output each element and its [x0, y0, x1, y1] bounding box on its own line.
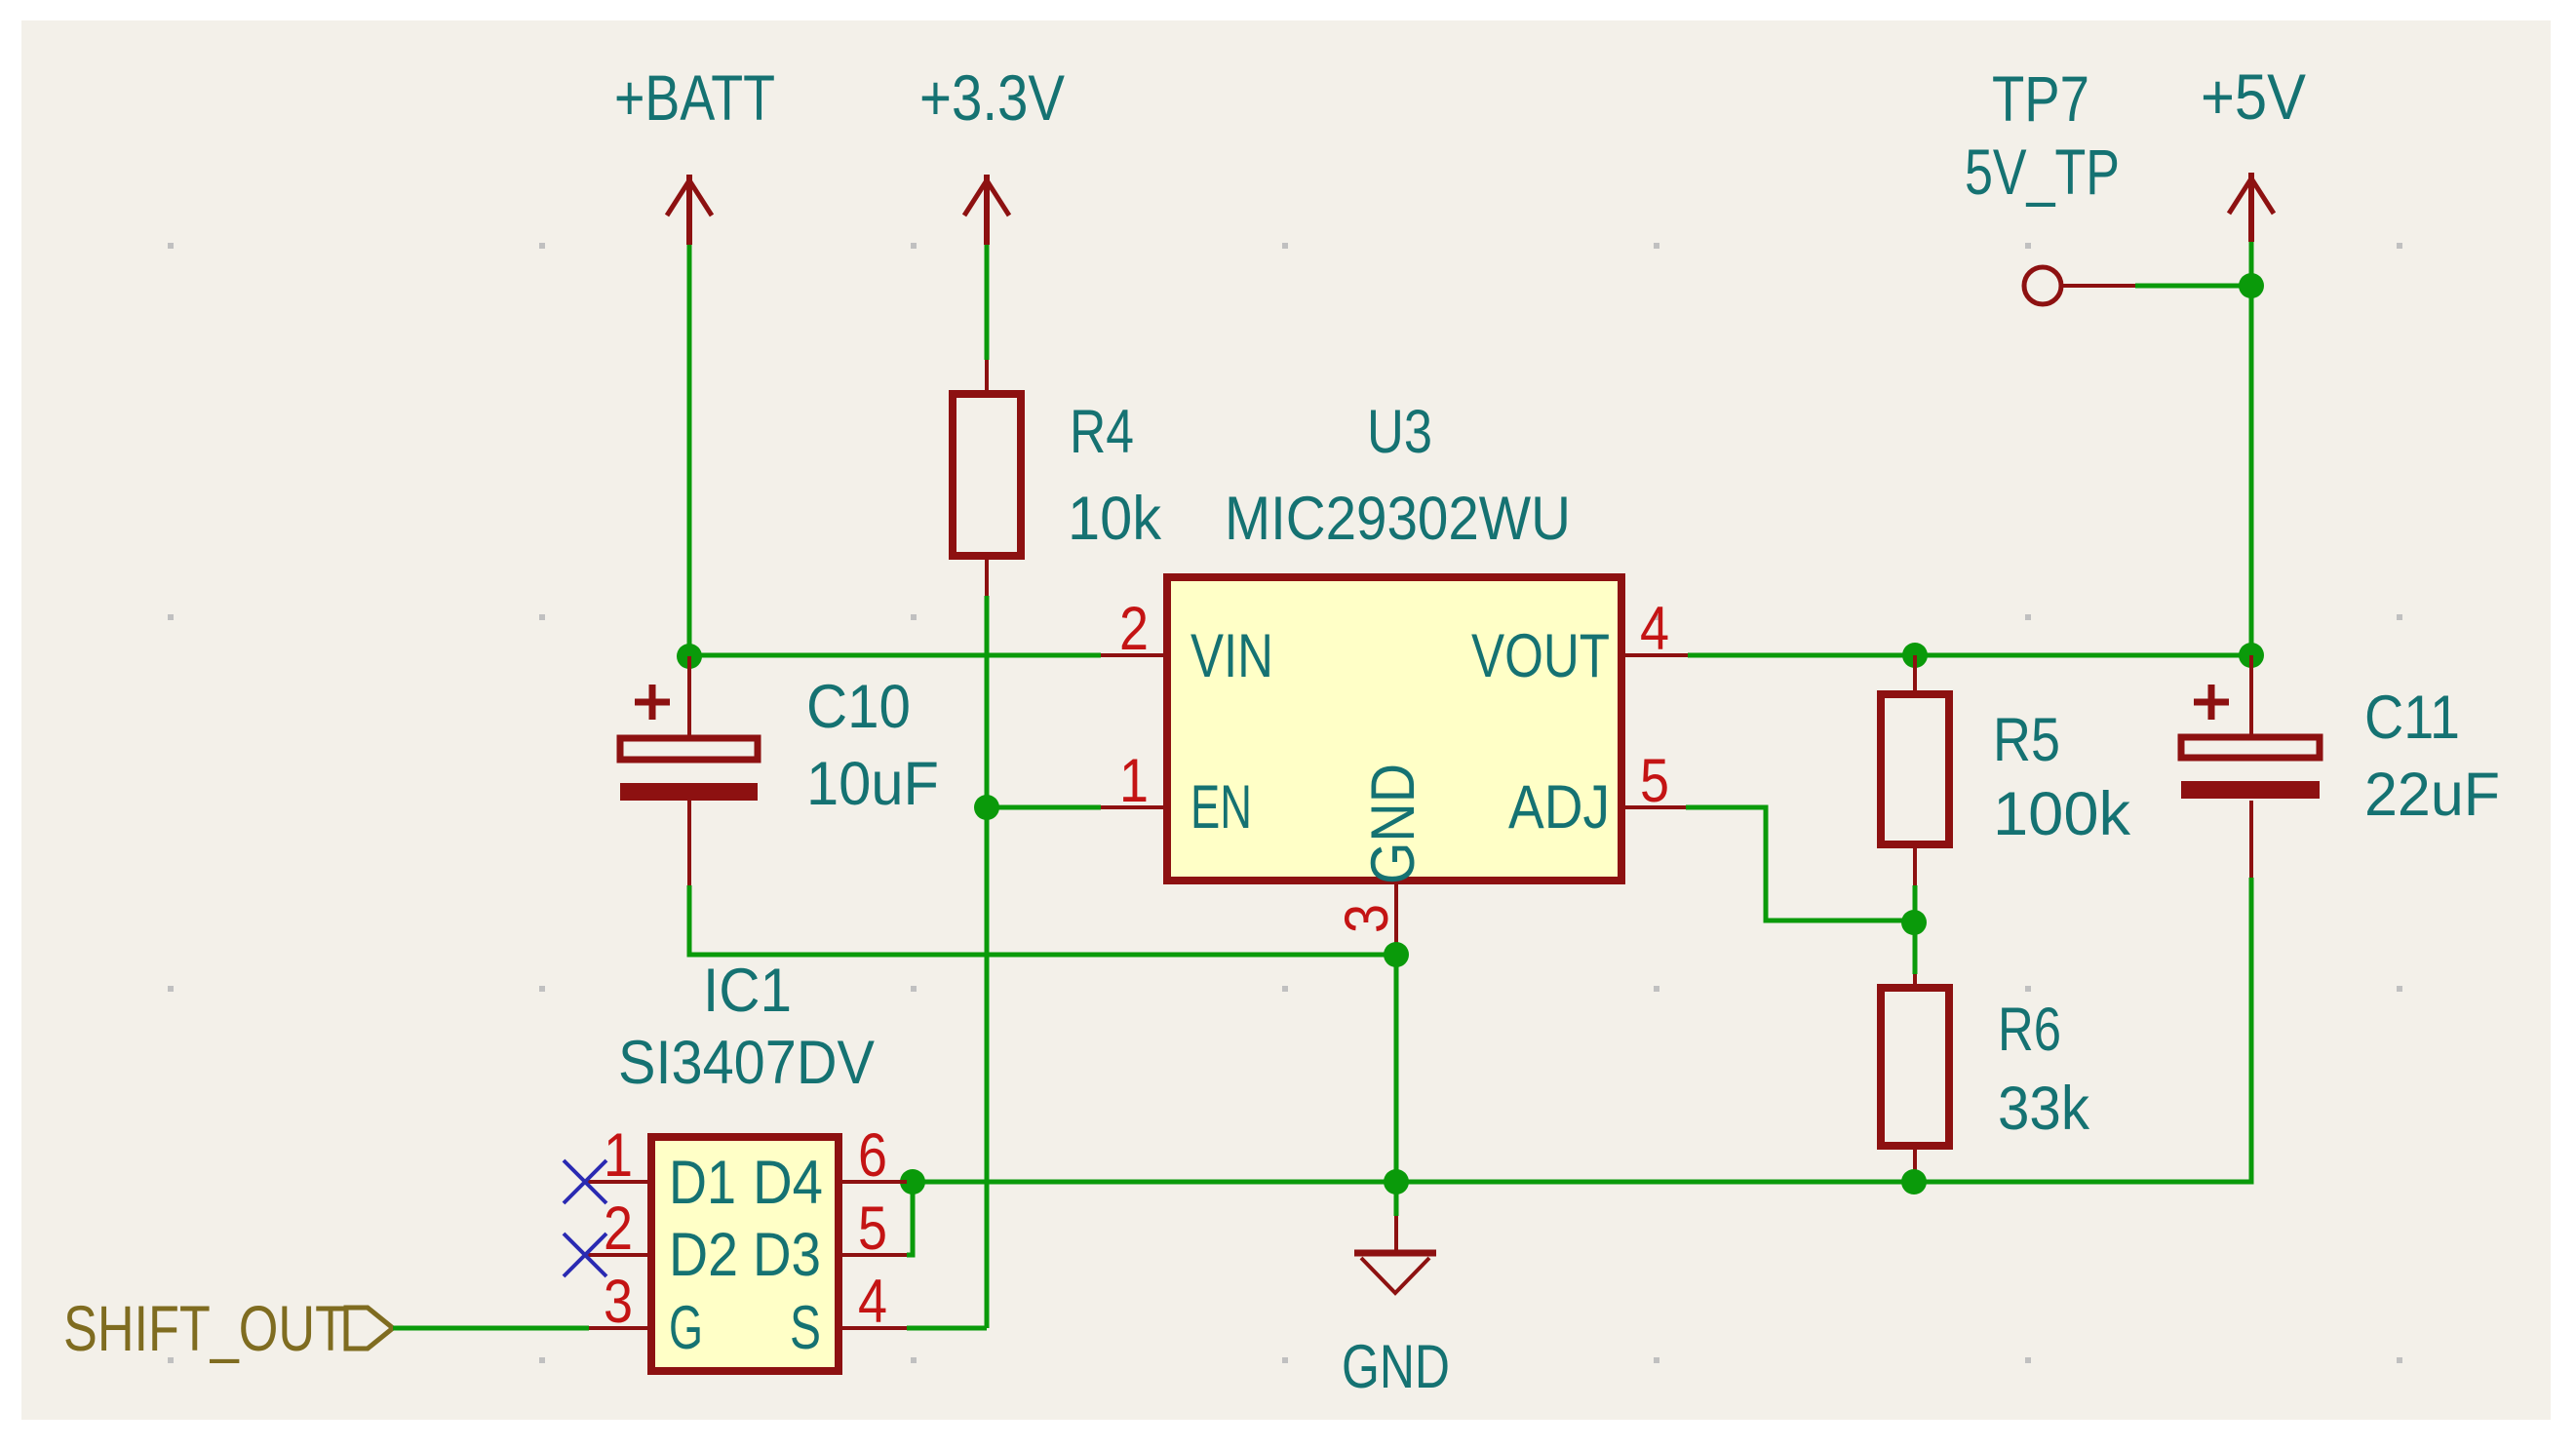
- capacitor C10 bottom plate: [620, 783, 758, 801]
- svg-text:100k: 100k: [1993, 780, 2131, 848]
- svg-text:GND: GND: [1359, 764, 1427, 884]
- U3 pin name EN: [1190, 773, 1252, 842]
- resistor R4 bottom pin: [985, 556, 989, 596]
- wire +5V vertical: [2249, 242, 2254, 655]
- IC1 pin name D1: [669, 1149, 736, 1217]
- svg-text:C11: C11: [2364, 684, 2460, 752]
- svg-text:D3: D3: [753, 1221, 821, 1289]
- svg-text:6: 6: [858, 1121, 887, 1190]
- svg-text:D2: D2: [669, 1221, 738, 1289]
- junction U3 pin3 node: [1384, 942, 1409, 967]
- resistor R6 top pin: [1913, 974, 1917, 988]
- junction +BATT/C10/VIN: [677, 644, 702, 669]
- U3 pin name GND vertical: [1359, 764, 1427, 884]
- IC1 pin name S: [790, 1294, 821, 1362]
- wire C10 bottom: [689, 885, 1396, 955]
- U3 pin 1 EN stub: [1101, 805, 1167, 809]
- hierarchical label SHIFT_OUT text: [63, 1292, 346, 1364]
- wire bottom row: [913, 1180, 1914, 1185]
- IC1 pin name D2: [669, 1221, 738, 1289]
- svg-text:R6: R6: [1998, 996, 2061, 1064]
- svg-text:IC1: IC1: [703, 957, 792, 1025]
- wire SHIFT_OUT to gate: [393, 1326, 589, 1331]
- U3 pin 2 number: [1119, 595, 1149, 663]
- power symbol +BATT label: [614, 61, 775, 134]
- U3 pin 4 number: [1640, 595, 1669, 663]
- capacitor C11 plus sign: [2194, 685, 2229, 720]
- resistor R6 reference label: [1998, 996, 2061, 1064]
- svg-text:5V_TP: 5V_TP: [1965, 136, 2120, 208]
- ground stub: [1394, 1216, 1398, 1250]
- U3 pin name VOUT: [1471, 622, 1610, 690]
- resistor R4 top pin: [985, 360, 989, 394]
- IC1 value SI3407DV: [618, 1029, 875, 1097]
- capacitor C10 top pin: [687, 656, 691, 738]
- wire TP7 to +5V net: [2135, 284, 2251, 289]
- svg-text:SI3407DV: SI3407DV: [618, 1029, 875, 1097]
- resistor R4 body: [953, 394, 1021, 556]
- svg-text:+3.3V: +3.3V: [919, 61, 1065, 134]
- capacitor C10 bottom pin: [687, 801, 691, 885]
- IC1 pin name D3: [753, 1221, 821, 1289]
- U3 value MIC29302WU: [1225, 485, 1571, 553]
- wire +BATT to VIN: [689, 653, 1101, 658]
- resistor R6 value 33k: [1998, 1075, 2089, 1143]
- wire ADJ to divider: [1686, 807, 1914, 920]
- wire junction to R6: [1913, 933, 1918, 974]
- power symbol +BATT arrow: [667, 175, 712, 245]
- capacitor C10 top plate: [620, 738, 758, 760]
- svg-text:4: 4: [858, 1268, 887, 1336]
- svg-text:R5: R5: [1993, 706, 2060, 774]
- svg-text:4: 4: [1640, 595, 1669, 663]
- test point TP7 net label 5V_TP: [1965, 136, 2120, 208]
- test point TP7 reference label: [1992, 62, 2089, 135]
- svg-text:22uF: 22uF: [2364, 761, 2500, 829]
- svg-text:MIC29302WU: MIC29302WU: [1225, 485, 1571, 553]
- svg-text:2: 2: [604, 1194, 633, 1263]
- power symbol +3.3V label: [919, 61, 1065, 134]
- svg-text:+BATT: +BATT: [614, 61, 775, 134]
- resistor R5 value 100k: [1993, 780, 2131, 848]
- resistor R5 reference label: [1993, 706, 2060, 774]
- junction R5/R6/ADJ: [1901, 910, 1927, 935]
- svg-text:33k: 33k: [1998, 1075, 2089, 1143]
- svg-text:2: 2: [1119, 595, 1149, 663]
- junction IC1 pin6: [900, 1169, 925, 1194]
- IC1 pin 6 number: [858, 1121, 887, 1190]
- junction GND column bottom: [1384, 1169, 1409, 1194]
- ground label GND: [1342, 1333, 1450, 1401]
- wire C11 bottom: [1914, 878, 2251, 1182]
- U3 pin 3 GND stub: [1394, 881, 1398, 955]
- capacitor C10 value 10uF: [806, 750, 939, 818]
- capacitor C10 plus sign: [635, 685, 670, 720]
- wire +3.3V to R4: [985, 245, 990, 360]
- svg-text:U3: U3: [1367, 398, 1432, 466]
- svg-text:EN: EN: [1190, 773, 1252, 842]
- svg-text:S: S: [790, 1294, 821, 1362]
- IC1 pin 2 number: [604, 1194, 633, 1263]
- svg-text:+5V: +5V: [2201, 60, 2306, 133]
- U3 pin name ADJ: [1508, 773, 1610, 842]
- capacitor C11 bottom plate: [2181, 781, 2320, 799]
- svg-text:3: 3: [1333, 904, 1401, 933]
- power symbol +5V arrow: [2229, 173, 2274, 242]
- junction EN node: [974, 795, 999, 820]
- junction R6 bottom: [1901, 1169, 1927, 1194]
- power symbol +5V label: [2201, 60, 2306, 133]
- capacitor C11 bottom pin: [2249, 801, 2253, 878]
- U3 pin 4 VOUT stub: [1621, 653, 1688, 657]
- svg-text:GND: GND: [1342, 1333, 1450, 1401]
- transistor IC1 body box: [651, 1137, 839, 1371]
- svg-text:5: 5: [1640, 747, 1669, 815]
- svg-text:5: 5: [858, 1194, 887, 1263]
- ground symbol: [1354, 1253, 1436, 1293]
- svg-text:D4: D4: [753, 1149, 823, 1217]
- svg-text:R4: R4: [1070, 398, 1134, 466]
- U3 pin 1 number: [1119, 747, 1149, 815]
- resistor R5 bottom pin: [1913, 844, 1917, 885]
- resistor R4 reference label: [1070, 398, 1134, 466]
- IC1 pin 2 stub: [585, 1253, 651, 1257]
- U3 reference label: [1367, 398, 1432, 466]
- wire pin6 to pin5: [907, 1182, 913, 1255]
- resistor R6 body: [1881, 988, 1949, 1146]
- resistor R5 body: [1881, 694, 1949, 844]
- junction VOUT/C11: [2239, 643, 2264, 668]
- svg-text:G: G: [669, 1294, 703, 1362]
- IC1 reference label: [703, 957, 792, 1025]
- junction VOUT/R5: [1902, 643, 1928, 668]
- IC1 pin 5 number: [858, 1194, 887, 1263]
- wire VOUT row: [1688, 653, 2251, 658]
- svg-text:1: 1: [1119, 747, 1149, 815]
- IC1 pin 5 stub: [839, 1253, 907, 1257]
- no-connect X pin 1: [564, 1160, 606, 1203]
- U3 pin 2 VIN stub: [1101, 653, 1167, 657]
- resistor R5 top pin: [1913, 655, 1917, 694]
- wire R4 to EN column: [985, 596, 990, 1328]
- resistor R4 value 10k: [1068, 485, 1161, 553]
- wire +BATT vertical: [687, 245, 692, 656]
- svg-text:SHIFT_OUT: SHIFT_OUT: [63, 1292, 346, 1364]
- wire EN junction to EN pin: [987, 805, 1101, 810]
- capacitor C10 reference label: [806, 673, 911, 741]
- U3 pin name VIN: [1190, 622, 1273, 690]
- capacitor C11 reference label: [2364, 684, 2460, 752]
- IC1 pin name D4: [753, 1149, 823, 1217]
- U3 pin 5 number: [1640, 747, 1669, 815]
- no-connect X pin 2: [564, 1234, 606, 1276]
- test point TP7 pin: [2063, 284, 2135, 288]
- svg-text:VOUT: VOUT: [1471, 622, 1610, 690]
- grid dots: [168, 243, 2402, 1363]
- svg-text:ADJ: ADJ: [1508, 773, 1610, 842]
- capacitor C11 top pin: [2249, 655, 2253, 737]
- IC1 pin name G: [669, 1294, 703, 1362]
- svg-text:TP7: TP7: [1992, 62, 2089, 135]
- U3 pin 3 number: [1333, 904, 1401, 933]
- U3 pin 5 ADJ stub: [1621, 805, 1688, 809]
- capacitor C11 top plate: [2181, 737, 2320, 758]
- svg-text:D1: D1: [669, 1149, 736, 1217]
- svg-text:VIN: VIN: [1190, 622, 1273, 690]
- svg-text:C10: C10: [806, 673, 911, 741]
- IC1 pin 1 number: [604, 1121, 633, 1190]
- IC1 pin 4 stub: [839, 1326, 907, 1330]
- test point TP7 pad circle: [2024, 267, 2061, 304]
- wire GND pin3 column: [1394, 955, 1399, 1216]
- junction +5V/TP7: [2239, 273, 2264, 298]
- svg-text:3: 3: [604, 1268, 633, 1336]
- IC1 pin 3 number: [604, 1268, 633, 1336]
- resistor R6 bottom pin: [1913, 1146, 1917, 1182]
- op-amp U3 body box: [1167, 577, 1621, 881]
- svg-text:1: 1: [604, 1121, 633, 1190]
- hierarchical label SHIFT_OUT shape: [346, 1308, 393, 1349]
- wire pin4 to column: [907, 1326, 987, 1331]
- power symbol +3.3V arrow: [964, 175, 1009, 245]
- IC1 pin 4 number: [858, 1268, 887, 1336]
- IC1 pin 1 stub: [585, 1180, 651, 1184]
- IC1 pin 6 stub: [839, 1180, 907, 1184]
- capacitor C11 value 22uF: [2364, 761, 2500, 829]
- svg-text:10uF: 10uF: [806, 750, 939, 818]
- svg-text:10k: 10k: [1068, 485, 1161, 553]
- IC1 pin 3 stub: [589, 1326, 651, 1330]
- wire R5 to junction: [1913, 885, 1918, 912]
